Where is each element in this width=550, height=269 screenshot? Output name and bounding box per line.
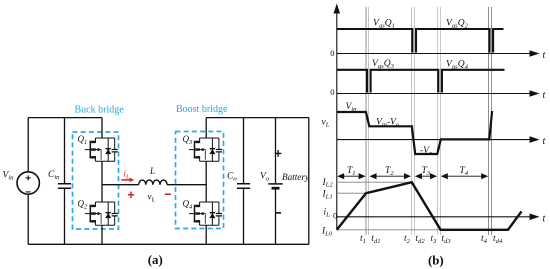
t axis 2 (337, 93, 531, 95)
waveform VgsQ3/VgsQ4 (337, 70, 505, 93)
wire right rail (308, 118, 310, 245)
svg-text:L: L (149, 166, 155, 176)
level line IL1 (337, 192, 366, 194)
grid guide t3 (437, 7, 440, 235)
wire top rail left (28, 117, 102, 119)
mosfet Q4 (189, 202, 222, 225)
wire buck leg upper (101, 118, 103, 138)
battery Vo (268, 118, 282, 245)
label battery minus (276, 212, 281, 214)
t axis 3 (337, 139, 531, 141)
Buck bridge box (73, 132, 119, 229)
vertical axis (336, 8, 338, 230)
inductor L (139, 180, 167, 185)
period arrow T4 (441, 173, 488, 179)
svg-text:0: 0 (333, 211, 337, 221)
waveform vL (337, 111, 492, 154)
waveform VgsQ1/VgsQ2 (337, 29, 504, 53)
svg-text:(a): (a) (148, 253, 163, 267)
grid guide t4 (488, 7, 491, 235)
period arrow T3 (415, 173, 437, 179)
capacitor Co (237, 118, 250, 245)
svg-text:t: t (543, 90, 546, 101)
svg-text:0: 0 (330, 87, 334, 97)
svg-text:(b): (b) (428, 253, 444, 267)
wire top rail right (206, 117, 309, 119)
wire bottom rail (28, 243, 309, 245)
t axis 4 (337, 216, 531, 218)
waveform iL (337, 182, 522, 230)
svg-text:0: 0 (330, 48, 334, 58)
wire boost leg middle (205, 161, 207, 202)
t axis 1 (337, 53, 531, 55)
label vL polarity minus (165, 193, 171, 195)
svg-text:t: t (543, 213, 546, 224)
wire mid left (node to inductor) (102, 184, 139, 186)
mosfet Q2 (85, 202, 118, 225)
mosfet Q3 (189, 138, 222, 161)
source Vin (17, 118, 39, 245)
current arrow iL (121, 178, 134, 182)
svg-text:Boost bridge: Boost bridge (176, 104, 228, 115)
grid guide t2 (411, 7, 414, 235)
level line IL0 (337, 229, 508, 231)
capacitor Cin (58, 118, 71, 245)
grid guide t1 (366, 7, 369, 235)
wire mid right (inductor to boost leg) (167, 184, 206, 186)
svg-text:Battery: Battery (282, 172, 310, 182)
period arrow T1 (337, 173, 365, 179)
label vL polarity plus (128, 192, 134, 198)
wire buck leg lower (101, 225, 103, 244)
svg-text:Buck bridge: Buck bridge (75, 105, 125, 116)
Boost bridge box (176, 132, 224, 229)
label battery plus (275, 150, 282, 157)
svg-text:t: t (543, 136, 546, 147)
period arrow T2 (370, 173, 412, 179)
mosfet Q1 (85, 138, 118, 161)
wire boost leg lower (205, 225, 207, 244)
level line IL2 (337, 181, 412, 183)
wire boost leg upper (205, 118, 207, 138)
svg-text:t: t (543, 50, 546, 61)
wire buck leg middle (101, 161, 103, 202)
